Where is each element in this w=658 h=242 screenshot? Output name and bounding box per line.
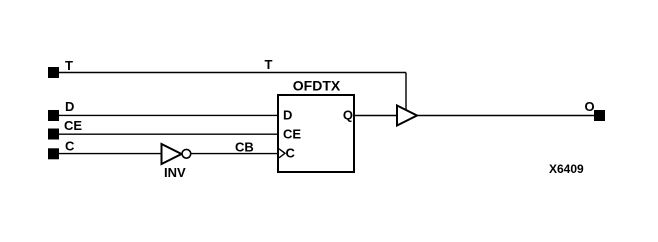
clock wedge (flip-flop C pin) — [279, 149, 285, 158]
input pin C — [48, 148, 59, 159]
svg-text:D: D — [65, 99, 74, 114]
wire T horizontal — [59, 72, 406, 74]
svg-text:D: D — [283, 108, 292, 123]
svg-text:Q: Q — [343, 108, 353, 123]
flip-flop U1 OFDTX body — [278, 95, 354, 172]
svg-text:T: T — [265, 57, 273, 72]
svg-text:INV: INV — [164, 165, 186, 180]
svg-text:CB: CB — [235, 140, 254, 155]
wire T vertical to buffer control — [405, 73, 407, 111]
input pin CE — [48, 129, 59, 140]
svg-text:C: C — [286, 146, 296, 161]
svg-text:O: O — [585, 99, 595, 114]
inverter INV — [162, 144, 191, 164]
input pin D — [48, 110, 59, 121]
tri-state buffer — [397, 106, 417, 126]
wire D — [59, 114, 278, 116]
svg-text:T: T — [65, 58, 73, 73]
svg-text:X6409: X6409 — [549, 162, 584, 176]
wire CB (inverter output to flip-flop C) — [191, 153, 278, 155]
output pin O — [594, 110, 605, 121]
wire Q to tri-state buffer — [355, 115, 397, 117]
input pin T — [48, 67, 59, 78]
wire buffer output to O — [417, 115, 594, 117]
svg-text:CE: CE — [283, 127, 301, 142]
svg-text:C: C — [65, 139, 75, 154]
svg-text:CE: CE — [64, 118, 82, 133]
wire CE — [59, 133, 278, 135]
wire C to inverter — [59, 153, 162, 155]
svg-text:OFDTX: OFDTX — [293, 78, 341, 94]
